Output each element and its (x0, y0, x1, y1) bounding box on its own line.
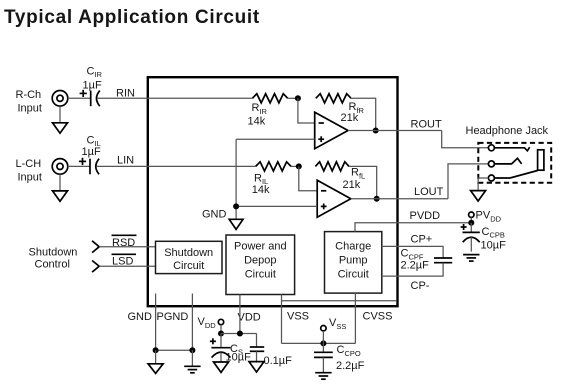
wire CP- (382, 263, 443, 276)
RCA connector J1 (R-Ch) (52, 91, 68, 107)
wire node A to op-amp U1A inverting input (298, 98, 315, 123)
svg-text:ROUT: ROUT (411, 119, 442, 131)
svg-text:21k: 21k (343, 179, 361, 191)
wire J2 to capacitor CIL (68, 165, 90, 167)
wire node B to op-amp U1B inverting input (299, 166, 317, 190)
svg-text:CCPO: CCPO (337, 344, 361, 358)
junction GND bias (233, 203, 239, 209)
svg-text:CP+: CP+ (411, 234, 433, 246)
capacitor 0.1uF (256, 334, 258, 348)
capacitor CCPO (322, 343, 324, 352)
wire PGND to earth (191, 350, 193, 366)
capacitor CCPF (434, 257, 452, 259)
block Charge Pump Circuit (325, 232, 382, 294)
capacitor CCPB (470, 223, 472, 233)
wire ROUT (348, 130, 442, 132)
wire GND bias vertical (235, 139, 237, 219)
wire PVDD (355, 223, 471, 232)
svg-text:Circuit: Circuit (338, 269, 369, 281)
svg-text:RSD: RSD (112, 237, 135, 249)
svg-text:VSS: VSS (287, 311, 309, 323)
wire RfL to op-amp U1B output (349, 166, 377, 198)
wire LOUT (351, 198, 448, 200)
svg-text:14k: 14k (252, 184, 270, 196)
svg-text:Typical Application Circuit: Typical Application Circuit (4, 7, 260, 28)
svg-text:2.2µF: 2.2µF (401, 260, 430, 272)
svg-text:VDD: VDD (198, 316, 217, 330)
svg-text:Headphone Jack: Headphone Jack (466, 125, 549, 137)
capacitor CB (bulk 10uF) (220, 334, 222, 348)
junction op-amp U1B output (374, 196, 380, 202)
capacitor CIL (89, 159, 91, 175)
RCA connector J2 (L-CH) (52, 159, 68, 175)
ground (CCPB) (463, 254, 479, 256)
jack tip contact (488, 145, 494, 151)
junction GND (153, 347, 159, 353)
wire LOUT to headphone jack ring (448, 164, 488, 199)
wire CP+ (382, 246, 443, 258)
wire VDD node horizontal (221, 333, 257, 335)
junction VDD pin (237, 331, 243, 337)
op-amp U1B (317, 180, 351, 217)
svg-text:1µF: 1µF (83, 80, 102, 92)
svg-text:LOUT: LOUT (414, 186, 444, 198)
svg-text:PGND: PGND (157, 311, 189, 323)
wire jack sleeve to ground (478, 178, 488, 191)
wire VDD pin (239, 295, 241, 334)
svg-text:Pump: Pump (339, 255, 368, 267)
svg-text:R-Ch: R-Ch (16, 89, 42, 101)
ground (R-Ch input) (53, 123, 68, 133)
resistor RIL (256, 162, 291, 171)
wire VSS internal rail (282, 300, 397, 302)
svg-text:Input: Input (18, 102, 42, 114)
input chevron RSD (92, 241, 99, 253)
svg-text:VSS: VSS (329, 317, 346, 331)
junction op-amp U1A output (373, 128, 379, 134)
wire RIN: capacitor to resistor RIR (97, 97, 252, 99)
wire VSS pin (281, 295, 283, 344)
wire RfR to op-amp U1A output (351, 98, 376, 130)
wire LSD (99, 265, 155, 267)
svg-text:Circuit: Circuit (245, 269, 276, 281)
svg-text:14k: 14k (248, 115, 266, 127)
junction PGND (189, 347, 195, 353)
jack ring contact (488, 161, 494, 167)
svg-text:Shutdown: Shutdown (164, 247, 213, 259)
svg-text:Circuit: Circuit (173, 260, 204, 272)
svg-text:LIN: LIN (117, 155, 134, 167)
capacitor CIR (90, 91, 92, 107)
wire J1 to capacitor CIR (68, 97, 91, 99)
op-amp IC boundary box U1 (148, 77, 398, 306)
block Power and Depop Circuit (226, 235, 295, 295)
junction node A (R-ch inverting node) (295, 95, 301, 101)
wire connector J1 to ground (59, 106, 61, 123)
terminal VDD supply (218, 319, 223, 324)
wire GND pin (155, 294, 157, 351)
svg-text:CVSS: CVSS (363, 311, 393, 323)
ground (CB) (214, 362, 229, 372)
svg-text:0.1µF: 0.1µF (264, 355, 293, 367)
wire connector J2 to ground (59, 174, 61, 191)
svg-text:L-CH: L-CH (16, 158, 42, 170)
wire op-amp U1A noninverting input to GND bias (236, 138, 315, 140)
svg-text:Input: Input (18, 171, 42, 183)
svg-text:Power and: Power and (234, 241, 287, 253)
svg-text:LSD: LSD (112, 255, 133, 267)
svg-text:GND: GND (128, 311, 153, 323)
svg-text:Control: Control (35, 259, 70, 271)
svg-text:Charge: Charge (335, 241, 371, 253)
resistor RIR (252, 94, 287, 103)
terminal PVDD (469, 212, 474, 217)
svg-text:CIR: CIR (87, 65, 103, 79)
earth ground (CCPO) (315, 372, 331, 374)
wire RSD (99, 246, 155, 248)
svg-text:1µF: 1µF (82, 146, 101, 158)
svg-text:21k: 21k (341, 112, 359, 124)
resistor RfL (315, 162, 349, 171)
junction VSS node (320, 340, 326, 346)
ground (headphone jack) (471, 191, 486, 201)
jack plug body (538, 150, 544, 170)
svg-text:CP-: CP- (411, 280, 430, 292)
wire ROUT to headphone jack tip (442, 131, 489, 148)
ground (GND pin) (148, 364, 163, 374)
block Shutdown Circuit (156, 241, 223, 273)
wire RIL to node B (291, 165, 299, 167)
ground (bias) (229, 219, 243, 229)
ground (0.1uF) (249, 362, 264, 372)
svg-text:CCPB: CCPB (482, 226, 505, 240)
svg-text:VDD: VDD (238, 312, 261, 324)
svg-text:Shutdown: Shutdown (29, 247, 78, 259)
wire LIN: capacitor to resistor RIL (96, 165, 255, 167)
headphone jack J3 dashed enclosure (478, 143, 551, 183)
wire CVSS pin (354, 293, 356, 343)
wire VDD terminal to node (220, 325, 222, 334)
wire PGND pin (191, 294, 193, 351)
wire GND to ground (155, 350, 157, 364)
wire VSS-CVSS tie (282, 342, 356, 344)
op-amp U1A (315, 112, 348, 149)
svg-text:PVDD: PVDD (410, 210, 441, 222)
svg-text:2.2µF: 2.2µF (336, 360, 365, 372)
svg-text:10µF: 10µF (481, 240, 507, 252)
ground (L-CH input) (53, 191, 68, 201)
junction PVDD node (468, 220, 474, 226)
junction node B (L-ch inverting node) (296, 163, 302, 169)
resistor RfR (316, 94, 351, 103)
svg-text:GND: GND (202, 208, 227, 220)
wire op-amp U1B noninverting input to GND bias (236, 205, 317, 207)
terminal VSS supply (321, 326, 326, 331)
svg-text:RIR: RIR (252, 102, 268, 116)
wire GND-PGND tie (156, 349, 193, 351)
wire RIR to node A (288, 97, 298, 99)
input chevron LSD (92, 261, 99, 273)
svg-text:PVDD: PVDD (476, 210, 502, 224)
junction VDD node (CB) (218, 331, 224, 337)
jack sleeve contact (488, 175, 494, 181)
earth ground (PGND) (184, 365, 200, 367)
svg-text:Depop: Depop (244, 255, 276, 267)
